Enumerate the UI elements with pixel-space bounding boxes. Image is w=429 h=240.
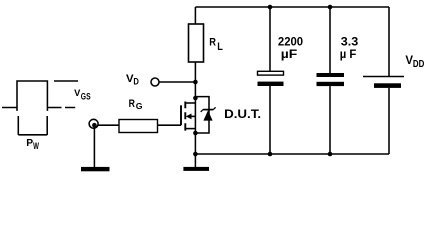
svg-text:G: G bbox=[136, 101, 143, 111]
svg-text:DD: DD bbox=[413, 58, 425, 70]
svg-text:D: D bbox=[133, 76, 139, 87]
svg-text:GS: GS bbox=[81, 91, 91, 101]
svg-text:D.U.T.: D.U.T. bbox=[224, 108, 261, 121]
svg-text:µF: µF bbox=[281, 47, 298, 61]
svg-text:R: R bbox=[129, 98, 135, 110]
svg-text:L: L bbox=[217, 41, 223, 53]
svg-text:µ F: µ F bbox=[340, 47, 357, 61]
svg-text:W: W bbox=[33, 141, 39, 151]
svg-text:R: R bbox=[209, 37, 216, 49]
